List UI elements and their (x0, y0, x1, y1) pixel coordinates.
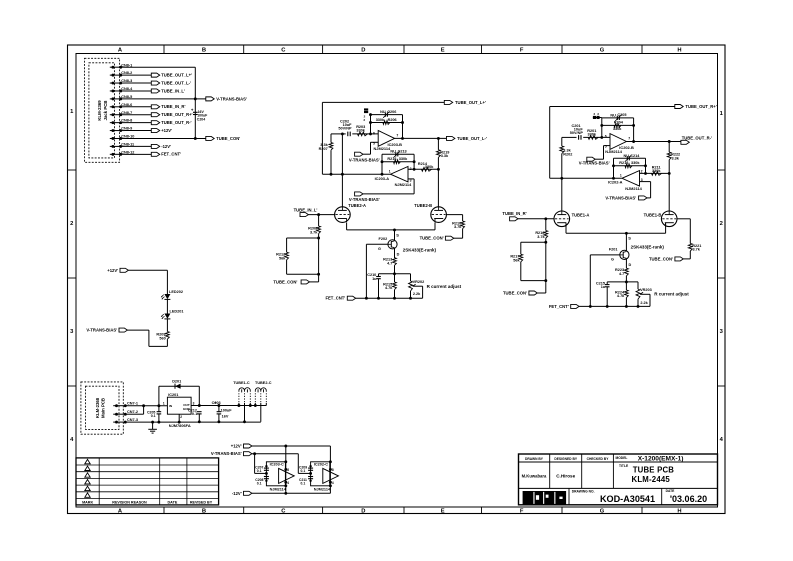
svg-text:D: D (397, 253, 400, 257)
connector block KLM-2369 Jack PCB outer dashed box (85, 58, 120, 162)
border frame inner (76, 54, 718, 508)
svg-text:6: 6 (605, 135, 607, 139)
net flag TUBE_CON' (right A) (529, 291, 537, 295)
net flag FET_CNT' (151, 152, 159, 156)
net flag TUBE_OUT_L+' (444, 100, 452, 104)
svg-text:REVISED BY: REVISED BY (190, 500, 213, 504)
svg-text:3.7k: 3.7k (537, 235, 545, 239)
net flag TUBE_OUT_L-' (151, 81, 159, 85)
node junction CN8-10 / C204 (194, 137, 197, 140)
svg-text:X-1200(EMX-1): X-1200(EMX-1) (638, 455, 684, 462)
svg-text:1: 1 (163, 402, 165, 406)
svg-text:+: + (191, 107, 194, 112)
svg-text:TUBE_OUT_R-': TUBE_OUT_R-' (682, 135, 712, 140)
svg-text:R current adjust: R current adjust (654, 291, 689, 296)
svg-text:0.1: 0.1 (301, 469, 306, 473)
svg-text:V-TRANS-BIAS': V-TRANS-BIAS' (211, 451, 242, 456)
svg-text:D: D (361, 509, 365, 515)
node box top (317, 237, 320, 240)
svg-text:56k: 56k (279, 257, 286, 261)
column ticks bottom (163, 507, 165, 514)
svg-text:CHECKED BY: CHECKED BY (587, 457, 610, 461)
KORG logo (523, 491, 567, 505)
svg-text:KLM-2369: KLM-2369 (97, 100, 102, 121)
svg-text:DRAWING NO.: DRAWING NO. (572, 489, 595, 493)
capacitor C208 0.1 (264, 476, 269, 478)
triode TUBE2-B (431, 207, 447, 223)
resistor R218 330k (625, 164, 632, 168)
wire IC202-A output line (550, 177, 622, 179)
capacitor C201 10uF 50V/NP (578, 135, 580, 140)
connector pin CN8-12 (110, 153, 125, 155)
svg-text:-12V': -12V' (232, 491, 242, 496)
node IC203-B inverting input (369, 132, 372, 135)
resistor R206 330k (383, 121, 390, 125)
svg-text:8: 8 (287, 468, 289, 472)
connector block inner dashed box (89, 63, 115, 158)
wire to TUBE_CON flag (454, 237, 463, 239)
svg-text:4.7: 4.7 (619, 272, 624, 276)
svg-text:NJM2114: NJM2114 (395, 182, 412, 187)
connector pin CN8-1 (110, 66, 125, 68)
svg-text:TUBE1-C: TUBE1-C (233, 381, 250, 385)
svg-text:NU: NU (390, 150, 396, 154)
net flag TUBE_CON' (TUBE1-B) (675, 257, 683, 261)
wire CN8-3 to net flag (125, 82, 152, 84)
svg-text:MODEL: MODEL (616, 456, 628, 460)
net flag V-TRANS-BIAS' (206, 97, 214, 101)
wire D201 right drop (198, 386, 200, 405)
svg-text:IC201: IC201 (168, 393, 178, 397)
wire lower feedback resistor branch (R) (614, 165, 646, 167)
svg-text:TUBE_CON': TUBE_CON' (216, 136, 240, 141)
svg-text:F: F (520, 509, 524, 515)
svg-text:LED201: LED201 (170, 310, 184, 314)
resistor R209 560 (166, 332, 170, 340)
svg-text:DESIGNED BY: DESIGNED BY (554, 457, 578, 461)
node R213/R215/C210/VR202 (393, 272, 396, 275)
svg-text:S: S (628, 236, 631, 241)
svg-text:IC203-A: IC203-A (375, 176, 390, 181)
wire feedback resistor branch (371, 122, 403, 124)
net flag TUBE_OUT_R-' (681, 140, 689, 144)
net flag V-TRANS-BIAS' (IC202-B) (587, 157, 595, 161)
svg-text:NJM2114: NJM2114 (625, 186, 642, 191)
wire common cathode rail (R) (566, 232, 666, 234)
node TUBE2-A plate column (341, 173, 344, 176)
wire IC203-A pin2 line (408, 168, 438, 170)
op-amp IC203-A NJM2114 (391, 166, 409, 182)
svg-text:1u: 1u (601, 285, 606, 289)
svg-text:50V/NP: 50V/NP (338, 127, 352, 131)
svg-text:V-TRANS-BIAS': V-TRANS-BIAS' (349, 197, 380, 202)
svg-text:NU: NU (380, 110, 386, 114)
svg-text:KLM-2368: KLM-2368 (95, 397, 100, 418)
svg-text:330k: 330k (425, 165, 434, 169)
wire IC203-A output line (322, 173, 390, 175)
svg-text:S: S (396, 232, 399, 237)
wire feedback right vertical (402, 115, 404, 139)
svg-text:REVISION REASON: REVISION REASON (112, 500, 147, 504)
wire TUBE_OUT_R+ rail (550, 106, 675, 108)
wire CN7-1 input rail (128, 405, 167, 407)
op-amp IC203-B NJM2114 (378, 131, 394, 147)
svg-text:TUBE1-B: TUBE1-B (644, 212, 662, 217)
op-amp IC202-A NJM2114 (622, 171, 640, 187)
variable resistor VR202 2.2k (410, 274, 412, 281)
wire CN8-8 to net flag (125, 122, 152, 124)
capacitor C211 0.1 (308, 476, 313, 478)
net flag V-TRANS-BIAS' (IC202-A) (639, 196, 647, 200)
svg-text:V-TRANS-BIAS': V-TRANS-BIAS' (86, 328, 117, 333)
svg-text:330k: 330k (399, 157, 408, 161)
net flag TUBE_OUT_R-' (151, 121, 159, 125)
wire feedback left vertical (370, 115, 372, 134)
inner dashed box (Main PCB) (86, 386, 120, 429)
svg-text:F: F (520, 48, 524, 54)
svg-text:IC203-C: IC203-C (270, 463, 284, 467)
net flag +12V' (power) (244, 444, 252, 448)
svg-text:2: 2 (641, 169, 643, 173)
FET F201 2SK433(E-rank) (625, 233, 627, 251)
svg-text:4: 4 (332, 481, 334, 485)
wire CN8-2 to net flag (125, 74, 152, 76)
svg-text:TUBE_IN_R': TUBE_IN_R' (502, 211, 526, 216)
svg-text:NJM2114: NJM2114 (314, 487, 331, 491)
wire box bottom edge (287, 273, 319, 275)
wire CN7-3 ground rail (128, 421, 261, 423)
wire TUBE2-B plate vertical (437, 168, 440, 171)
svg-text:R current adjust: R current adjust (427, 284, 462, 289)
svg-text:7: 7 (396, 134, 398, 138)
wire +12V to LED column (128, 269, 167, 271)
svg-text:NJM2114: NJM2114 (605, 149, 622, 154)
capacitor C215 1u (606, 282, 608, 285)
svg-text:4.7k: 4.7k (385, 286, 393, 290)
svg-text:TUBE2-B: TUBE2-B (414, 203, 432, 208)
svg-text:G: G (600, 48, 605, 54)
wire CN8-9 to net flag (125, 130, 152, 132)
connector pin CN8-2 (110, 74, 125, 76)
wire left loop vertical (321, 102, 323, 174)
wire bias stub to IC203-C (255, 472, 267, 474)
svg-text:TUBE_IN_L': TUBE_IN_L' (161, 88, 185, 93)
svg-text:3.7k: 3.7k (454, 225, 462, 229)
net flag V-TRANS-BIAS' (IC203-B) (355, 152, 363, 156)
variable resistor VR203 2.2k (637, 282, 639, 289)
LED202 (164, 294, 170, 299)
triode TUBE1-B (661, 211, 677, 227)
svg-text:NJM2114: NJM2114 (374, 146, 391, 151)
resistor R219 3.3k (437, 137, 440, 140)
net flag TUBE_OUT_R+' (675, 105, 683, 109)
connector pin CN8-10 (110, 137, 125, 139)
wire IC203-C pins 8/4 rail (285, 446, 287, 493)
svg-text:560: 560 (159, 337, 165, 341)
svg-text:330k: 330k (588, 133, 597, 137)
svg-text:DATE: DATE (168, 500, 178, 504)
svg-text:V-TRANS-BIAS': V-TRANS-BIAS' (579, 160, 610, 165)
capacitor C207 0.1 (254, 454, 256, 474)
svg-text:TUBE_CON': TUBE_CON' (420, 236, 444, 241)
svg-text:Jack PCB: Jack PCB (103, 101, 108, 121)
svg-text:TUBE_OUT_L+': TUBE_OUT_L+' (455, 100, 486, 105)
wire bias stub to IC202-C (298, 472, 310, 474)
column ticks top (163, 45, 165, 54)
svg-text:+12V': +12V' (231, 444, 242, 449)
svg-text:1u: 1u (372, 277, 377, 281)
svg-text:TUBE2-A: TUBE2-A (348, 203, 366, 208)
svg-text:8: 8 (332, 468, 334, 472)
wire IC202-B pin5 to V-TRANS-BIAS (604, 145, 611, 147)
wire input line to IC203-B pin6 (331, 133, 346, 135)
svg-text:3.3k: 3.3k (441, 154, 449, 158)
svg-text:TUBE_IN_R': TUBE_IN_R' (161, 104, 185, 109)
wire CN8-7 to net flag (125, 114, 152, 116)
svg-text:MARK: MARK (82, 500, 93, 504)
svg-text:B: B (202, 48, 206, 54)
svg-text:D201: D201 (172, 379, 181, 383)
svg-text:2SK433(E-rank): 2SK433(E-rank) (631, 244, 665, 249)
svg-text:2SK433(E-rank): 2SK433(E-rank) (403, 247, 437, 252)
diode D201 bypass (158, 386, 160, 406)
svg-text:TUBE1-A: TUBE1-A (572, 212, 590, 217)
jumper pads 2/3 (R) (593, 116, 596, 119)
node junction CN8-5 / C204 (194, 97, 197, 100)
border frame outer (68, 45, 726, 514)
svg-text:TUBE_OUT_L+': TUBE_OUT_L+' (161, 73, 192, 78)
net flag TUBE_CON' (TUBE2-B) (445, 236, 453, 240)
svg-text:KLM-2445: KLM-2445 (632, 475, 671, 484)
net flag TUBE_OUT_R+' (151, 113, 159, 117)
svg-text:2.2k: 2.2k (640, 301, 648, 305)
svg-text:R207: R207 (319, 147, 328, 151)
node D201/C205 branch (157, 404, 160, 407)
svg-text:2: 2 (180, 415, 182, 419)
capacitor C203 100uF 16V (217, 404, 220, 407)
capacitor C202 10uF 50V/NP (347, 132, 349, 137)
svg-text:G: G (600, 509, 605, 515)
svg-text:C203: C203 (212, 401, 221, 405)
wire -12V rail (power) (252, 492, 331, 494)
capacitor C210 1u (378, 274, 380, 277)
net flag TUBE_IN_R' (510, 217, 518, 221)
svg-text:TUBE2-C: TUBE2-C (255, 381, 272, 385)
svg-text:3.7k: 3.7k (310, 230, 318, 234)
svg-text:1: 1 (620, 174, 622, 178)
svg-text:IC202-A: IC202-A (608, 180, 623, 185)
node IC202-B inverting input (600, 136, 603, 139)
svg-text:B: B (202, 509, 206, 515)
wire IC203-A pin3 to V-TRANS-BIAS (408, 178, 414, 180)
capacitor C206 (NU) (384, 113, 386, 117)
svg-text:IC202-C: IC202-C (314, 463, 328, 467)
node grid TUBE1-A (544, 217, 547, 220)
wire between LEDs (166, 299, 168, 313)
net flag V-TRANS-BIAS' (power) (244, 452, 252, 456)
svg-text:330k: 330k (356, 129, 365, 133)
wire CN8-12 to net flag (125, 153, 152, 155)
wire IC201 GND pin (178, 414, 180, 422)
svg-text:V-TRANS-BIAS': V-TRANS-BIAS' (349, 157, 380, 162)
node box top (R) (544, 241, 547, 244)
svg-text:R218: R218 (619, 161, 628, 165)
net flag TUBE_CON' (left) (301, 280, 309, 284)
connector pin CN8-6 (110, 106, 125, 108)
svg-text:0.1: 0.1 (257, 482, 262, 486)
svg-text:330k: 330k (376, 118, 385, 122)
svg-text:100uF: 100uF (221, 409, 233, 413)
svg-text:4.7k: 4.7k (617, 294, 625, 298)
svg-text:+12V': +12V' (161, 128, 172, 133)
op-amp IC202-B NJM2114 (610, 134, 626, 150)
resistor R203 330k (358, 132, 368, 136)
wire CN8-4 to net flag (125, 90, 152, 92)
node R207 bottom (330, 173, 333, 176)
voltage regulator IC201 NJM7806FA (167, 397, 191, 414)
wire IC202-B output rail TUBE_OUT_R- (626, 141, 681, 143)
svg-text:4: 4 (287, 481, 289, 485)
svg-text:DATE: DATE (666, 489, 676, 493)
svg-text:16V: 16V (222, 414, 229, 418)
net flag TUBE_IN_R' (151, 105, 159, 109)
title block (519, 454, 718, 505)
wire TUBE1-B grid to R221 (677, 218, 690, 220)
resistor R216 330k (394, 160, 401, 164)
resistor R204 330k (614, 124, 621, 128)
wire IC202-A pin3 to V-TRANS-BIAS (640, 181, 651, 183)
node R223/R224/C215/VR203 (625, 280, 628, 283)
svg-text:0.1: 0.1 (192, 412, 197, 416)
net flag TUBE_OUT_L-' (447, 136, 455, 140)
wire IC202-C pins 8/4 rail (329, 446, 331, 493)
wire node line (R) (607, 281, 638, 283)
connector pin CN8-4 (110, 90, 125, 92)
svg-text:1: 1 (389, 169, 391, 173)
svg-text:TUBE_IN_L': TUBE_IN_L' (294, 208, 318, 213)
svg-text:3.7k: 3.7k (693, 248, 701, 252)
net flag TUBE_IN_L' (151, 89, 159, 93)
wire to TUBE_CON flag (R) (683, 258, 690, 260)
resistor R211 330k (652, 172, 662, 176)
svg-text:E: E (441, 509, 445, 515)
resistor R221 3.7k (689, 219, 691, 244)
wire feedback cap branch NU C205 (602, 117, 634, 119)
svg-text:R202: R202 (563, 152, 572, 156)
op-amp power block IC203-C (266, 462, 285, 486)
svg-text:'03.06.20: '03.06.20 (670, 494, 707, 504)
resistor R208 3.7k (318, 215, 320, 226)
svg-text:TITLE: TITLE (619, 464, 629, 468)
svg-text:LED202: LED202 (169, 290, 183, 294)
resistor R223 4.7 (625, 259, 627, 269)
svg-text:CN8-12: CN8-12 (121, 150, 134, 154)
wire box top edge (287, 237, 319, 239)
svg-text:TUBE_OUT_R+': TUBE_OUT_R+' (161, 112, 192, 117)
wire right loop vertical (549, 107, 551, 179)
svg-text:E: E (441, 48, 445, 54)
wire lower feedback cap branch (R) (614, 157, 646, 159)
svg-text:2: 2 (720, 221, 723, 227)
wire vertical node CN8-1 to TUBE_CON rail (194, 67, 196, 138)
capacitor C213 (NU) (395, 152, 397, 156)
net flag FET_CNT' (347, 296, 355, 300)
wire box bottom edge (R) (521, 280, 546, 282)
resistor R202 3.3k (561, 137, 563, 146)
svg-text:CN7-3: CN7-3 (127, 418, 138, 422)
wire lower feedback left vertical (R) (612, 177, 615, 180)
wire V-TRANS-BIAS rail (power) (252, 453, 298, 455)
svg-text:0.1: 0.1 (151, 414, 156, 418)
svg-text:FET_CNT': FET_CNT' (549, 304, 569, 309)
svg-text:D: D (629, 263, 632, 267)
svg-text:V-TRANS-BIAS': V-TRANS-BIAS' (216, 96, 247, 101)
svg-text:Main PCB: Main PCB (100, 398, 105, 418)
triode TUBE2-A (335, 207, 351, 223)
row ticks right (718, 169, 726, 171)
wire gate to FET_CNT rail (R) (590, 254, 620, 256)
wire lower feedback resistor branch (382, 161, 414, 163)
svg-text:F202: F202 (379, 237, 388, 241)
wire feedback resistor branch (R) (602, 124, 634, 126)
connector pin CN8-5 (110, 98, 125, 100)
svg-text:330k: 330k (652, 169, 661, 173)
ground symbol (151, 421, 154, 424)
wire feedback cap branch NU C206 (371, 114, 403, 116)
svg-text:M.Kuwabara: M.Kuwabara (522, 473, 547, 478)
svg-text:FET_CNT': FET_CNT' (161, 152, 181, 157)
wire feedback left vertical (R) (601, 118, 603, 137)
svg-text:TUBE_OUT_R+': TUBE_OUT_R+' (685, 104, 716, 109)
svg-text:50V/NP: 50V/NP (570, 131, 584, 135)
wire TUBE2-B grid to R210 (446, 214, 462, 216)
wire lower feedback left vertical (381, 173, 384, 176)
op-amp power block IC202-C (311, 462, 330, 486)
LED201 (164, 314, 170, 319)
wire CN8-5 to V-TRANS-BIAS flag (125, 98, 206, 100)
wire IC202-A pin2 line (640, 172, 670, 174)
wire common cathode rail (347, 229, 435, 231)
svg-text:330k: 330k (613, 127, 622, 131)
connector pin CN7-3 (113, 421, 128, 423)
net flag TUBE_IN_L' (300, 213, 308, 217)
wire TUBE1-B plate vertical (668, 172, 671, 175)
resistor R210 3.7k (462, 215, 464, 221)
wire CN8-11 to net flag (125, 145, 152, 147)
capacitor C214 (NU) (626, 156, 628, 160)
capacitor C209 0.1 (297, 454, 299, 474)
svg-text:C214: C214 (630, 154, 640, 158)
wire node line (379, 273, 411, 275)
net flag -12V' (power) (244, 491, 252, 495)
svg-text:TUBE_OUT_R-': TUBE_OUT_R-' (161, 120, 191, 125)
resistor R212 56k on box left edge (286, 238, 288, 252)
svg-text:7: 7 (628, 137, 630, 141)
svg-text:330k: 330k (631, 161, 640, 165)
capacitor C205 (NU) (616, 116, 618, 120)
connector pin CN8-7 (110, 114, 125, 116)
svg-text:R216: R216 (387, 157, 396, 161)
wire TUBE_IN_L to grid (308, 214, 334, 216)
wire box top edge (R) (521, 241, 546, 243)
wire box right edge / down to TUBE_CON (318, 238, 320, 282)
svg-text:H: H (677, 48, 681, 54)
net flag FET_CNT' (R) (571, 304, 579, 308)
svg-text:C213: C213 (398, 150, 407, 154)
wire LED201 to R209 (166, 319, 168, 332)
wire FET_CNT rail (356, 297, 423, 299)
jumper pads 2/3 (364, 108, 368, 110)
